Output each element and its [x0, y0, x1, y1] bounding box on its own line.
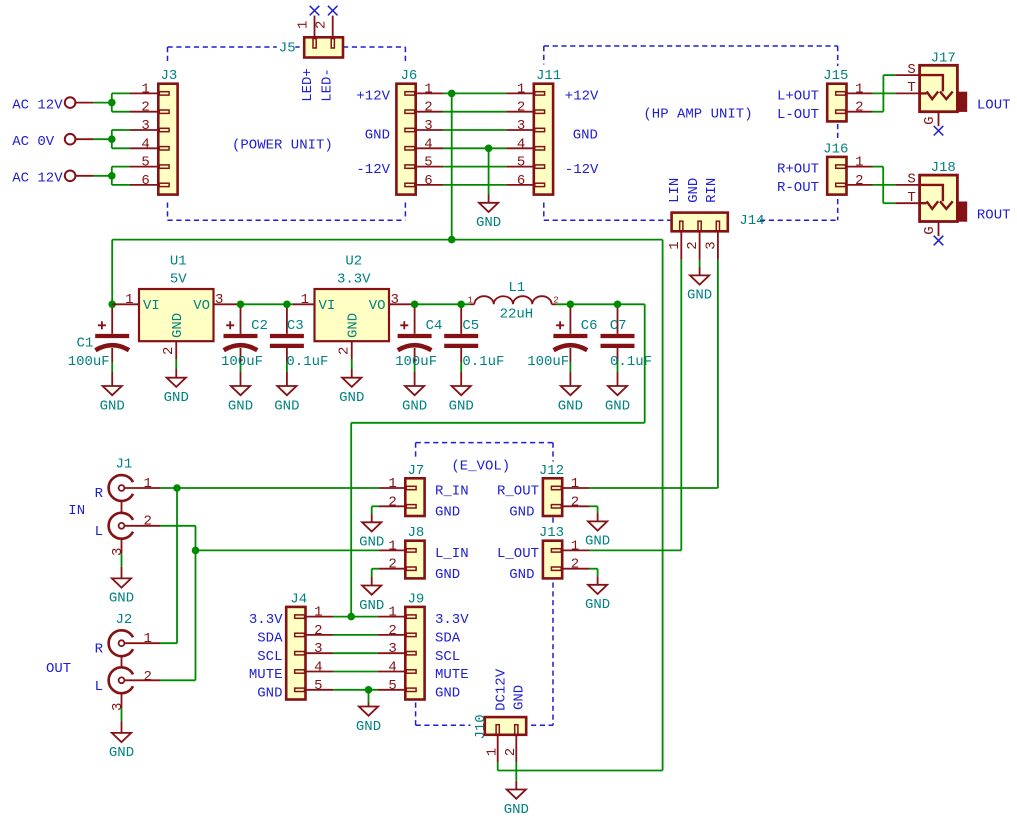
svg-text:VO: VO — [193, 298, 210, 314]
ground at J4/J9 pin 5 — [356, 707, 381, 735]
J4 pin lead — [306, 634, 334, 636]
J16 pin 2 lead — [847, 184, 873, 186]
wire — [368, 690, 370, 703]
connector J6 — [396, 67, 432, 194]
svg-text:VI: VI — [143, 298, 160, 314]
wire J6 to J11 — [443, 184, 506, 186]
J9 pin lead — [378, 652, 406, 654]
no-connect J17 G — [934, 126, 944, 136]
wire vertical — [176, 488, 178, 643]
wire J15.1 to J17.T — [873, 92, 896, 94]
wire — [371, 569, 373, 577]
svg-text:GND: GND — [435, 505, 460, 521]
svg-text:R: R — [95, 641, 104, 657]
wire L_OUT — [589, 549, 681, 551]
svg-text:C4: C4 — [426, 318, 443, 334]
wire — [873, 111, 884, 113]
connector J15 — [822, 67, 863, 121]
svg-text:2: 2 — [388, 623, 396, 639]
wire GND down — [488, 148, 490, 194]
ground under C5 — [449, 386, 474, 414]
svg-text:R+OUT: R+OUT — [777, 162, 819, 178]
junction C3 — [283, 301, 291, 309]
svg-text:2: 2 — [144, 669, 152, 685]
svg-text:C2: C2 — [251, 318, 268, 334]
svg-text:1: 1 — [295, 21, 311, 29]
svg-text:1: 1 — [144, 476, 152, 492]
wire — [589, 505, 598, 507]
svg-text:-12V: -12V — [356, 162, 390, 178]
no-connect J5 pin 2 — [328, 6, 338, 16]
svg-text:IN: IN — [68, 503, 85, 519]
J3 pin lead — [130, 184, 159, 186]
J9 pin lead — [378, 671, 406, 673]
svg-text:+12V: +12V — [356, 89, 390, 105]
wire J6 to J11 — [443, 129, 506, 131]
junction C2 — [237, 301, 245, 309]
J14 pin lead — [717, 231, 719, 260]
ground at J13 pin 2 — [585, 585, 610, 613]
wire vertical — [195, 526, 197, 681]
svg-text:VI: VI — [319, 298, 336, 314]
J3 pin lead — [130, 92, 159, 94]
svg-text:6: 6 — [141, 173, 149, 189]
sheet box (E_VOL) dashed outline — [416, 443, 553, 726]
wire J4 to J9 — [333, 616, 378, 618]
inductor L1 22uH — [468, 280, 559, 322]
svg-text:2: 2 — [388, 494, 396, 510]
wire — [160, 679, 196, 681]
junction C6 — [567, 301, 575, 309]
junction — [108, 99, 116, 107]
U1 pin 3 — [214, 303, 241, 305]
J6 pin lead — [416, 184, 443, 186]
wire — [699, 260, 701, 267]
J7 pin 1 lead — [379, 487, 405, 489]
svg-text:SCL: SCL — [257, 649, 282, 665]
svg-text:R: R — [95, 486, 104, 502]
U2 pin 3 — [389, 303, 415, 305]
wire L_IN — [160, 525, 196, 527]
svg-text:J2: J2 — [116, 612, 133, 628]
svg-text:J5: J5 — [279, 41, 296, 57]
J5 pin 1 lead — [314, 16, 316, 38]
svg-text:C6: C6 — [581, 318, 598, 334]
J10 pin 1 lead — [497, 735, 499, 762]
junction +12V — [448, 90, 456, 98]
svg-text:1: 1 — [468, 296, 473, 306]
svg-text:2: 2 — [388, 557, 396, 573]
svg-text:100uF: 100uF — [527, 354, 569, 370]
connector J12 — [538, 462, 579, 516]
wire vertical — [882, 75, 884, 112]
wire — [497, 762, 499, 771]
svg-text:3: 3 — [517, 118, 525, 134]
J8 pin 2 lead — [379, 568, 405, 570]
ground under C7 — [605, 386, 630, 414]
ground under J1 — [109, 578, 134, 606]
gnd lead — [488, 195, 490, 203]
svg-text:AC 0V: AC 0V — [12, 134, 55, 150]
svg-text:SCL: SCL — [435, 649, 460, 665]
svg-text:LOUT: LOUT — [977, 98, 1011, 114]
ground under C4 — [402, 386, 427, 414]
svg-text:6: 6 — [517, 173, 525, 189]
junction — [173, 484, 181, 492]
regulator U1 5V — [139, 254, 214, 378]
labels L_IN GND at J8 — [435, 546, 469, 583]
audio jack J18 — [907, 160, 967, 236]
J6 pin lead — [416, 111, 443, 113]
J11 pin lead — [506, 129, 534, 131]
svg-text:4: 4 — [388, 660, 396, 676]
J3 pin lead — [130, 166, 159, 168]
svg-text:AC 12V: AC 12V — [12, 98, 63, 114]
svg-text:J4: J4 — [290, 591, 307, 607]
J5 pin 2 lead — [332, 16, 334, 38]
wire — [112, 184, 130, 186]
J3 pin lead — [130, 111, 159, 113]
svg-text:GND: GND — [435, 685, 460, 701]
wire vertical — [111, 130, 113, 148]
connector J7 — [388, 462, 425, 516]
wire — [461, 303, 470, 305]
svg-text:5: 5 — [388, 678, 396, 694]
svg-text:5: 5 — [141, 155, 149, 171]
wire J6 to J11 — [443, 111, 506, 113]
J9 pin lead — [378, 616, 406, 618]
J14 pin lead — [680, 231, 682, 260]
ground under C3 — [274, 386, 299, 414]
ground under C6 — [558, 386, 583, 414]
svg-text:J15: J15 — [823, 68, 848, 84]
svg-text:2: 2 — [313, 21, 329, 29]
U2 pin 1 — [293, 303, 315, 305]
gnd lead — [368, 703, 370, 707]
J15 pin 2 lead — [847, 111, 873, 113]
svg-text:GND: GND — [585, 597, 610, 613]
sheet box (HP AMP UNIT) dashed outline — [544, 46, 838, 220]
svg-text:4: 4 — [424, 136, 432, 152]
svg-text:ROUT: ROUT — [977, 207, 1011, 223]
wire — [597, 506, 599, 513]
junction — [192, 547, 200, 555]
svg-text:GND: GND — [435, 567, 460, 583]
wire 3.3V down to J4/J9 — [350, 423, 352, 617]
J6 pin lead — [416, 92, 443, 94]
svg-text:2: 2 — [571, 494, 579, 510]
wire — [93, 102, 111, 104]
svg-text:GND: GND — [687, 288, 712, 304]
svg-text:0.1uF: 0.1uF — [462, 354, 504, 370]
svg-text:22uH: 22uH — [500, 306, 534, 322]
wire DC12V across — [498, 770, 663, 772]
wire — [93, 175, 111, 177]
labels R_IN GND at J7 — [435, 484, 469, 521]
J2 pin 2 lead — [124, 679, 160, 681]
junction 3.3V — [347, 613, 355, 621]
J12 pin 2 lead — [562, 505, 589, 507]
svg-text:GND: GND — [164, 390, 189, 406]
svg-text:1: 1 — [388, 476, 396, 492]
pin lead — [75, 175, 93, 177]
J16 pin 1 lead — [847, 166, 873, 168]
J17 T pin lead — [895, 92, 919, 94]
svg-text:4: 4 — [314, 660, 322, 676]
gnd lead — [597, 513, 599, 521]
J13 pin 1 lead — [562, 549, 589, 551]
J3 pin lead — [130, 147, 159, 149]
svg-text:1: 1 — [855, 81, 863, 97]
RCA jack J2 — [109, 612, 133, 734]
wire J4 to J9 — [333, 634, 378, 636]
sheet box (POWER UNIT) dashed outline — [168, 47, 406, 220]
svg-text:1: 1 — [855, 155, 863, 171]
wire J6 to J11 — [443, 166, 506, 168]
svg-text:GND: GND — [356, 719, 381, 735]
svg-text:1: 1 — [517, 81, 525, 97]
labels R_OUT GND at J12 — [497, 484, 539, 521]
connector J10 — [472, 713, 527, 756]
capacitor C4 — [395, 308, 442, 386]
RCA jack J1 — [109, 457, 133, 579]
svg-text:DC12V: DC12V — [493, 668, 509, 711]
J7 pin 2 lead — [379, 505, 405, 507]
J10 pin 2 lead — [515, 735, 517, 762]
svg-text:3: 3 — [215, 292, 223, 308]
wire — [372, 568, 379, 570]
ground at J8 pin 2 — [359, 586, 384, 614]
svg-text:GND: GND — [346, 313, 362, 338]
svg-text:U1: U1 — [170, 254, 187, 270]
svg-text:J8: J8 — [408, 525, 425, 541]
capacitor C7 — [601, 308, 653, 386]
svg-text:R_IN: R_IN — [435, 484, 469, 500]
svg-text:6: 6 — [424, 173, 432, 189]
ground below J14 — [687, 275, 712, 303]
wire to J8 — [196, 549, 380, 551]
svg-text:1: 1 — [141, 81, 149, 97]
junction GND — [485, 145, 493, 153]
ground at J7 pin 2 — [359, 522, 384, 550]
svg-text:3: 3 — [110, 703, 126, 711]
J1 pin 1 lead — [124, 487, 160, 489]
svg-text:MUTE: MUTE — [435, 667, 469, 683]
svg-text:J13: J13 — [539, 525, 564, 541]
svg-text:G: G — [922, 226, 938, 234]
ground under U2 — [339, 378, 364, 406]
connector J16 — [822, 140, 863, 194]
svg-text:GND: GND — [365, 128, 390, 144]
svg-text:L: L — [95, 679, 103, 695]
svg-text:GND: GND — [274, 398, 299, 414]
svg-text:C3: C3 — [287, 318, 304, 334]
svg-text:GND: GND — [359, 598, 384, 614]
AC input terminal circle 3 — [65, 171, 76, 182]
J18 T pin lead — [895, 202, 919, 204]
svg-text:4: 4 — [141, 136, 149, 152]
svg-text:J6: J6 — [401, 68, 418, 84]
svg-text:5: 5 — [424, 155, 432, 171]
svg-text:GND: GND — [100, 398, 125, 414]
wire R_IN — [160, 487, 379, 489]
wire — [112, 92, 130, 94]
connector J11 — [517, 67, 562, 194]
svg-text:3: 3 — [391, 292, 399, 308]
svg-text:100uF: 100uF — [395, 354, 437, 370]
gnd lead — [597, 576, 599, 585]
svg-text:3: 3 — [424, 118, 432, 134]
J4 pin lead — [306, 652, 334, 654]
svg-text:GND: GND — [109, 591, 134, 607]
svg-text:1: 1 — [424, 81, 432, 97]
wire R_OUT — [589, 487, 718, 489]
wire 3.3V across — [351, 422, 645, 424]
gnd lead — [515, 781, 517, 790]
svg-text:J12: J12 — [539, 463, 564, 479]
capacitor C6 — [527, 308, 597, 386]
connector J14 — [667, 213, 765, 250]
svg-text:J16: J16 — [823, 141, 848, 157]
svg-text:GND: GND — [449, 398, 474, 414]
labels 3.3V SDA SCL MUTE GND at J4 — [249, 612, 283, 701]
svg-text:2: 2 — [144, 514, 152, 530]
junction C5 — [457, 301, 465, 309]
wire — [883, 202, 895, 204]
wire — [556, 303, 645, 305]
svg-text:LED-: LED- — [319, 68, 335, 102]
wire — [372, 505, 379, 507]
wire — [371, 506, 373, 514]
J6 pin lead — [416, 166, 443, 168]
wire — [287, 303, 293, 305]
svg-text:L: L — [95, 524, 103, 540]
U1 pin 1 — [112, 303, 139, 305]
J4 pin lead — [306, 616, 334, 618]
svg-text:J9: J9 — [408, 591, 425, 607]
AC input terminal circle 2 — [65, 134, 76, 145]
svg-text:L-OUT: L-OUT — [777, 107, 819, 123]
svg-text:GND: GND — [509, 567, 534, 583]
svg-text:GND: GND — [402, 398, 427, 414]
ground under U1 — [164, 378, 189, 406]
J11 pin lead — [506, 147, 534, 149]
svg-text:3: 3 — [314, 641, 322, 657]
svg-text:3.3V: 3.3V — [337, 272, 371, 288]
svg-text:L1: L1 — [508, 280, 525, 296]
wire — [415, 303, 462, 305]
svg-text:J14: J14 — [739, 213, 764, 229]
ground at J10 pin 2 — [504, 790, 529, 818]
J4 pin lead — [306, 689, 334, 691]
J1 pin 2 lead — [124, 525, 160, 527]
wire J6 to J11 — [443, 147, 506, 149]
wire — [589, 568, 598, 570]
J11 pin lead — [506, 111, 534, 113]
svg-text:GND: GND — [228, 398, 253, 414]
svg-text:MUTE: MUTE — [249, 667, 283, 683]
svg-text:0.1uF: 0.1uF — [610, 354, 652, 370]
wire — [112, 129, 130, 131]
wire +12V rail — [112, 239, 662, 241]
svg-text:1: 1 — [388, 538, 396, 554]
svg-text:RIN: RIN — [704, 178, 720, 203]
J18 S pin lead — [895, 184, 919, 186]
svg-text:100uF: 100uF — [221, 354, 263, 370]
svg-text:GND: GND — [509, 505, 534, 521]
ground under C2 — [228, 386, 253, 414]
svg-text:GND: GND — [686, 178, 702, 203]
regulator U2 3.3V — [315, 254, 390, 378]
svg-text:+12V: +12V — [565, 89, 599, 105]
J13 pin 2 lead — [562, 568, 589, 570]
J2 pin 1 lead — [124, 642, 160, 644]
junction rail — [448, 236, 456, 244]
svg-text:-12V: -12V — [565, 162, 599, 178]
svg-text:100uF: 100uF — [68, 354, 110, 370]
svg-text:R_OUT: R_OUT — [497, 484, 539, 500]
svg-text:L_OUT: L_OUT — [497, 546, 539, 562]
connector J8 — [388, 524, 425, 578]
ground below J6/J11 — [476, 203, 501, 231]
J6 pin lead — [416, 147, 443, 149]
pin lead — [75, 138, 93, 140]
junction — [108, 135, 116, 143]
wire — [515, 762, 517, 781]
svg-text:3: 3 — [141, 118, 149, 134]
svg-text:2: 2 — [855, 173, 863, 189]
wire down to U1 — [111, 240, 113, 305]
svg-text:J7: J7 — [408, 463, 425, 479]
svg-text:LIN: LIN — [667, 178, 683, 203]
svg-text:LED+: LED+ — [300, 68, 316, 102]
J9 pin lead — [378, 634, 406, 636]
svg-text:GND: GND — [109, 745, 134, 761]
svg-text:3.3V: 3.3V — [435, 612, 469, 628]
capacitor C2 — [221, 308, 268, 386]
audio jack J17 — [907, 50, 967, 126]
wire J6 to J11 — [443, 92, 506, 94]
labels L_OUT GND at J13 — [497, 546, 539, 583]
svg-text:VO: VO — [369, 298, 386, 314]
svg-text:GND: GND — [504, 802, 529, 818]
svg-text:3.3V: 3.3V — [249, 612, 283, 628]
svg-text:2: 2 — [517, 100, 525, 116]
svg-text:4: 4 — [517, 136, 525, 152]
J14 pin lead — [699, 231, 701, 260]
pin lead — [75, 102, 93, 104]
wire DC12V down — [662, 240, 664, 771]
junction C4 — [411, 301, 419, 309]
svg-text:J1: J1 — [116, 457, 133, 473]
connector J4 — [286, 590, 322, 699]
J11 pin lead — [506, 92, 534, 94]
svg-text:2: 2 — [141, 100, 149, 116]
svg-text:(POWER UNIT): (POWER UNIT) — [232, 138, 333, 154]
wire vertical — [882, 167, 884, 204]
labels DC12V GND at J10 — [493, 668, 527, 711]
svg-text:1: 1 — [388, 605, 396, 621]
J9 pin lead — [378, 689, 406, 691]
svg-text:5: 5 — [314, 678, 322, 694]
svg-text:2: 2 — [424, 100, 432, 116]
svg-text:2: 2 — [314, 623, 322, 639]
wire vertical — [111, 93, 113, 111]
svg-text:GND: GND — [605, 398, 630, 414]
ground at J12 pin 2 — [585, 521, 610, 549]
wire J4 to J9 — [333, 652, 378, 654]
gnd lead — [371, 577, 373, 586]
